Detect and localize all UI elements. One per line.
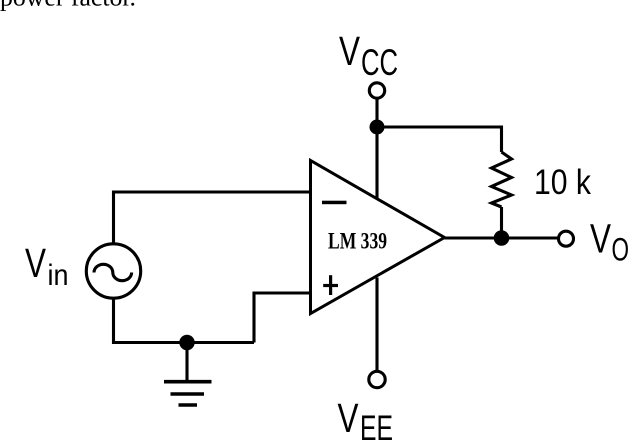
ground stub [185,343,188,381]
ground symbol [164,382,212,405]
svg-text:O: O [612,232,630,268]
node VO label [590,216,629,268]
svg-text:V: V [338,395,359,441]
non-inverting input marker plus [323,275,338,295]
wire source top to inverting input [114,192,311,244]
terminal VCC [369,83,384,98]
terminal VO [559,231,574,246]
op-amp comparator LM339 [311,161,445,314]
svg-text:EE: EE [360,409,393,443]
node Vin label [25,240,69,292]
wire resistor bottom to output junction [500,207,503,238]
wire op-amp output to terminal VO [445,236,559,239]
svg-text:CC: CC [361,41,398,83]
node VEE label [338,395,394,443]
svg-text:LM 339: LM 339 [328,229,387,254]
inverting input marker minus [322,201,347,205]
resistor R 10k [492,152,512,207]
node VCC label [339,28,398,83]
terminal VEE [369,371,385,387]
wire VCC pin into op-amp [375,127,378,198]
svg-text:V: V [339,28,360,74]
wire junction to resistor top [377,127,502,152]
svg-text:power factor.: power factor. [0,0,136,12]
junction dot at VCC rail [370,120,385,135]
svg-text:10 k: 10 k [534,162,591,202]
wire ground rail to non-inverting input [254,293,311,343]
svg-text:V: V [25,240,46,286]
source Vin (sine source) [86,244,140,298]
wire VCC terminal to junction [375,100,378,128]
junction dot at ground rail [179,335,194,350]
svg-text:in: in [48,259,69,292]
svg-text:V: V [590,216,611,262]
wire source bottom to ground rail [114,299,255,343]
junction dot at output node [494,230,510,246]
wire VEE pin from op-amp [375,278,378,371]
